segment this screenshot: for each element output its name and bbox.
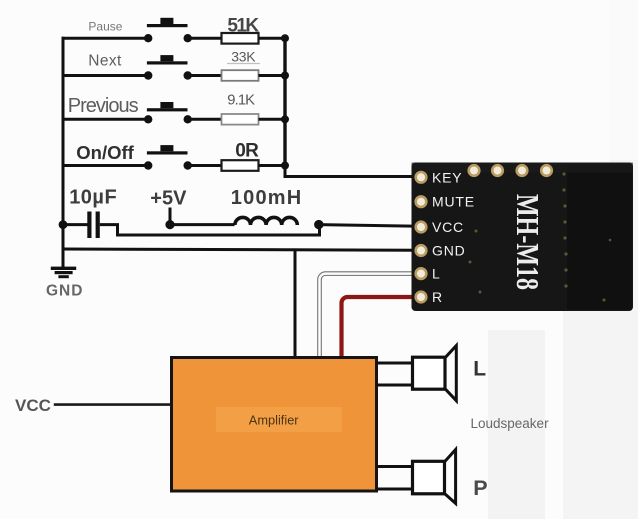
capacitor C1 10uF [87, 212, 99, 239]
svg-text:9.1K: 9.1K [227, 93, 255, 109]
resistor R4 0R [222, 140, 260, 170]
label 10uF [69, 187, 117, 209]
module pad MUTE [414, 195, 427, 208]
module pin label L [432, 266, 441, 282]
svg-text:GND: GND [432, 243, 466, 259]
wire: amp to L speaker stubs [377, 363, 414, 385]
wire: +5V stub [169, 208, 172, 225]
wire: GND rail branch to amplifier [294, 249, 297, 357]
wire: R3 to right rail [259, 118, 287, 121]
node: inductor output junction [314, 220, 323, 229]
module vias [469, 172, 612, 301]
svg-text:GND: GND [46, 282, 83, 299]
module pad L [414, 267, 427, 280]
wire: capacitor to lower jog rail [100, 225, 320, 235]
wire: Pause row left segment [62, 37, 149, 40]
wire: Next row left segment [62, 74, 149, 77]
module pin label MUTE [432, 194, 475, 210]
svg-text:33K: 33K [231, 49, 256, 65]
svg-text:Previous: Previous [68, 95, 139, 117]
svg-text:L: L [432, 266, 441, 282]
module pin label GND [432, 243, 466, 259]
wire: Next row right segment [188, 74, 222, 77]
module pad GND [414, 244, 427, 257]
wire: Previous row left segment [62, 118, 149, 121]
label +5V [150, 187, 187, 209]
module pin label R [432, 289, 443, 305]
label Loudspeaker [471, 416, 550, 431]
svg-text:Loudspeaker: Loudspeaker [471, 416, 550, 431]
svg-text:MUTE: MUTE [432, 194, 475, 210]
switch S1 (Pause pushbutton) [144, 18, 192, 43]
svg-text:L: L [473, 358, 486, 381]
node: rail/Next junction [281, 72, 289, 80]
wire: Pause row right segment [188, 37, 222, 40]
module silkscreen MH-M18 [510, 194, 546, 290]
svg-text:100mH: 100mH [231, 187, 303, 209]
switch S4 (On/Off pushbutton) [144, 145, 192, 170]
label L [473, 358, 486, 381]
wire: R1 to right rail [259, 37, 287, 40]
label GND [46, 282, 83, 299]
svg-text:P: P [473, 476, 487, 500]
wire: amp to P speaker stubs [377, 467, 414, 490]
background gray bottom-right block [563, 311, 638, 519]
wire: +5V to inductor [170, 223, 235, 226]
svg-text:Amplifier: Amplifier [249, 413, 300, 428]
loudspeaker P [413, 450, 456, 504]
wire: R2 to right rail [259, 74, 287, 77]
background gray column behind loudspeakers [488, 330, 545, 519]
node: rail/Pause junction [281, 34, 289, 42]
inductor L1 100mH [235, 217, 297, 225]
resistor R1 51K [222, 15, 260, 43]
svg-text:Pause: Pause [88, 19, 122, 33]
background right gray band [610, 0, 638, 160]
label Next [88, 53, 122, 70]
switch S2 (Next pushbutton) [144, 55, 192, 80]
node: +5V junction [165, 220, 174, 229]
svg-text:On/Off: On/Off [76, 142, 134, 163]
label P [473, 476, 487, 500]
wire: On/Off row right segment [188, 164, 222, 167]
wire: L signal (white) from module [320, 274, 419, 358]
svg-text:VCC: VCC [15, 396, 51, 415]
svg-text:KEY: KEY [432, 169, 462, 185]
switch S3 (Previous pushbutton) [144, 102, 192, 124]
svg-text:+5V: +5V [150, 187, 187, 209]
module pad VCC [414, 220, 427, 233]
resistor R2 33K [222, 49, 261, 81]
loudspeaker L [413, 346, 457, 401]
wire: R signal (dark red) from module [342, 297, 419, 358]
ground symbol [51, 250, 76, 278]
node: cap/left-bus junction [59, 220, 68, 229]
svg-text:0R: 0R [235, 140, 259, 161]
svg-text:51K: 51K [227, 15, 259, 36]
wire: left vertical bus [62, 37, 65, 250]
wire: Previous row right segment [188, 118, 222, 121]
module U1 MH-M18 board [412, 163, 634, 312]
module pad R [414, 290, 427, 303]
node: rail/Previous junction [281, 115, 289, 123]
module pin label VCC [432, 219, 464, 235]
module pin label KEY [432, 169, 462, 185]
node: rail/OnOff junction [281, 162, 289, 170]
module pad KEY [414, 171, 427, 184]
svg-text:VCC: VCC [432, 219, 464, 235]
svg-text:MH-M18: MH-M18 [510, 194, 546, 290]
resistor R3 9.1K [222, 93, 259, 125]
wire: rail to KEY pin [285, 166, 420, 177]
svg-text:R: R [432, 289, 443, 305]
wire: right vertical rail [283, 37, 286, 166]
wire: On/Off row left segment [62, 164, 149, 167]
wire: inductor to VCC pin [319, 225, 420, 227]
label VCC (amplifier supply) [15, 396, 51, 415]
amplifier A1 [172, 358, 377, 492]
svg-text:Next: Next [88, 53, 122, 70]
wire: R4 to right rail [259, 164, 287, 167]
label Previous [68, 95, 139, 117]
module top pad row [467, 164, 553, 177]
svg-text:10µF: 10µF [69, 187, 117, 209]
label 100mH [231, 187, 303, 209]
label On/Off [76, 142, 134, 163]
wire: bus to capacitor [63, 223, 88, 226]
wire: VCC to amplifier [54, 403, 172, 406]
wire: GND rail [62, 249, 421, 250]
label Pause [88, 19, 122, 33]
